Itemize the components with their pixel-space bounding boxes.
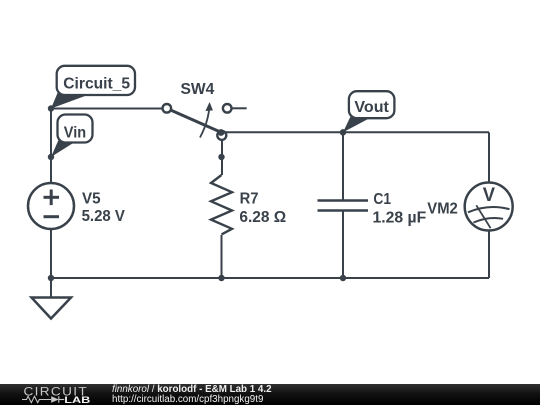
flag Vout tail (343, 117, 369, 133)
svg-text:SW4: SW4 (181, 81, 215, 98)
flag Vin box (58, 115, 93, 143)
flag Vout box (349, 91, 395, 118)
svg-text:Vin: Vin (64, 125, 86, 142)
flag Circuit_5 box (57, 66, 135, 95)
svg-text:R7: R7 (240, 191, 259, 208)
wire top-left horizontal (51, 108, 163, 110)
footer bar (0, 384, 540, 405)
svg-text:V5: V5 (82, 191, 101, 208)
wire pole horizontal to voltmeter (222, 131, 489, 133)
blade end dot (218, 129, 225, 136)
svg-text:Vout: Vout (354, 99, 389, 116)
wire voltmeter bottom (488, 231, 490, 279)
svg-text:5.28 V: 5.28 V (82, 208, 126, 225)
node dot R7 bottom (218, 275, 224, 281)
switch SW4 (163, 102, 247, 140)
node dot switch pin junction (218, 154, 224, 160)
svg-text:C1: C1 (373, 191, 391, 208)
voltmeter VM2 (465, 183, 513, 231)
blade (171, 110, 222, 132)
svg-text:6.28 Ω: 6.28 Ω (239, 209, 286, 226)
wire V5 bottom (50, 229, 52, 278)
actuator arrow (200, 109, 209, 138)
node dot C1 bottom (340, 275, 346, 281)
pin right throw (223, 104, 232, 113)
footer attribution text (112, 384, 272, 405)
node dot ground junction (48, 275, 54, 281)
node dot Vout anchor (340, 129, 346, 135)
svg-text:LAB: LAB (64, 395, 90, 405)
svg-text:V: V (483, 184, 495, 206)
svg-text:Circuit_5: Circuit_5 (63, 76, 130, 93)
svg-text:VM2: VM2 (427, 201, 458, 218)
CircuitLab logo (22, 385, 100, 405)
pin left throw (163, 104, 172, 113)
wire switch pole to node (221, 133, 223, 175)
wire left vertical (50, 109, 52, 184)
ground (32, 298, 72, 319)
wire bottom horizontal (51, 277, 489, 279)
pole circle (217, 131, 226, 140)
wire capacitor bottom (342, 211, 344, 279)
wire ground stub (50, 278, 52, 298)
wire resistor bottom (221, 235, 223, 278)
right throw stub (232, 107, 247, 109)
resistor R7 (211, 175, 232, 234)
svg-text:1.28 µF: 1.28 µF (373, 210, 427, 227)
wire capacitor top (342, 132, 344, 200)
wire voltmeter top (488, 132, 490, 182)
voltage source V5 (28, 183, 74, 229)
capacitor C1 (318, 201, 369, 211)
flag Vin tail (51, 140, 74, 157)
flag Circuit_5 tail (51, 93, 85, 109)
node dot Circuit_5 anchor (48, 105, 54, 111)
node dot Vin anchor (48, 154, 54, 160)
